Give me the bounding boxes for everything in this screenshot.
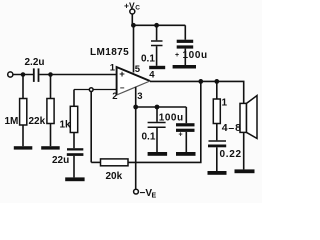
-V rail wire: [136, 106, 187, 108]
svg-text:3: 3: [137, 91, 142, 102]
svg-text:22u: 22u: [52, 155, 69, 166]
node D: [131, 23, 136, 28]
ground C6: [148, 152, 168, 156]
wire pin2 net: [74, 89, 117, 91]
svg-text:22k: 22k: [29, 116, 46, 127]
ground 22u: [65, 177, 84, 181]
svg-text:1k: 1k: [60, 120, 72, 131]
wire 1k to 22u: [73, 133, 75, 149]
capacitor C5 0.22 plates: [209, 140, 227, 142]
svg-text:100u: 100u: [159, 113, 184, 124]
wire cap to pin1: [39, 74, 116, 76]
resistor R1 1M body: [20, 99, 27, 126]
resistor R3 1k body: [70, 106, 77, 132]
resistor 22k lead: [50, 75, 52, 99]
pin5 wire: [133, 25, 135, 72]
svg-text:1: 1: [222, 98, 228, 109]
wire 22k to ground: [50, 124, 52, 147]
ground C5: [208, 171, 227, 175]
node C (fb node ring): [89, 88, 93, 92]
node F: [198, 79, 203, 84]
resistor R5 1 ohm lead: [216, 81, 218, 99]
node I: [155, 105, 160, 110]
capacitor C6 0.1 (bottom): [156, 107, 158, 122]
capacitor C7 100u (bottom): [185, 107, 187, 123]
resistor R4 20k body: [101, 159, 129, 166]
+Vc terminal: [130, 9, 135, 14]
svg-text:20k: 20k: [106, 171, 123, 182]
pin3 wire to -Ve: [135, 87, 137, 189]
-Ve terminal: [134, 189, 139, 194]
svg-text:−: −: [120, 84, 125, 93]
svg-text:4–8: 4–8: [222, 122, 242, 134]
wire 22u to ground: [73, 156, 75, 178]
svg-text:−V: −V: [140, 188, 153, 199]
wire to 20k: [91, 161, 100, 163]
+V rail wire: [132, 24, 185, 26]
wire input to cap: [13, 74, 33, 76]
capacitor 2.2u plates: [33, 68, 35, 82]
svg-text:E: E: [152, 193, 157, 200]
svg-text:+: +: [175, 52, 179, 59]
ground C3: [149, 66, 165, 69]
ground 1M: [14, 146, 33, 149]
svg-text:1: 1: [110, 63, 116, 74]
svg-text:+: +: [119, 69, 125, 80]
resistor 1M lead: [22, 75, 24, 99]
svg-text:100u: 100u: [183, 50, 208, 61]
svg-text:1M: 1M: [5, 116, 19, 127]
output wire pin4: [150, 81, 244, 103]
svg-text:4: 4: [149, 70, 155, 81]
capacitor C2 22u plates: [67, 148, 83, 150]
node A (input junction): [21, 72, 26, 77]
resistor R2 22k body: [47, 99, 54, 124]
svg-text:2: 2: [112, 91, 117, 102]
svg-text:LM1875: LM1875: [90, 47, 129, 58]
wire speaker to ground: [243, 132, 245, 169]
wire R5 to 0.22: [216, 124, 218, 141]
ground 22k: [41, 146, 60, 149]
node H: [133, 105, 138, 110]
node E: [154, 23, 159, 28]
resistor R5 1 ohm body: [213, 99, 220, 124]
svg-text:0.22: 0.22: [220, 149, 242, 160]
capacitor C4 100u (top): [184, 25, 186, 39]
op-amp U1 LM1875 triangle: [117, 67, 150, 95]
wire 1M to ground: [22, 125, 24, 146]
svg-text:0.1: 0.1: [141, 54, 155, 65]
svg-text:+: +: [179, 132, 183, 139]
ground speaker: [235, 169, 255, 173]
resistor R3 1k lead: [73, 90, 75, 107]
svg-text:0.1: 0.1: [142, 132, 156, 143]
node G: [214, 79, 219, 84]
svg-text:2.2u: 2.2u: [25, 57, 45, 68]
input terminal J1: [8, 72, 13, 77]
node B (after cap): [48, 72, 53, 77]
svg-text:5: 5: [135, 64, 141, 75]
svg-text:C: C: [135, 4, 140, 11]
wire 0.22 to ground: [216, 147, 218, 171]
wire 20k to output: [128, 81, 201, 162]
speaker LS1: [240, 103, 247, 132]
capacitor C3 0.1 (top): [156, 25, 158, 40]
ground C7: [176, 152, 196, 156]
ground C4: [173, 65, 196, 69]
wire fb node down: [90, 91, 92, 162]
svg-text:+V: +V: [124, 1, 135, 11]
